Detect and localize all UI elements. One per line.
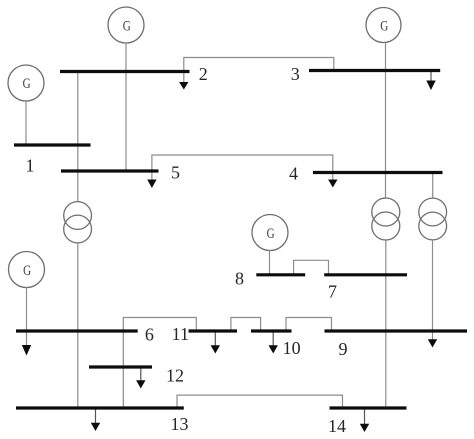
- svg-text:8: 8: [235, 269, 244, 289]
- wire transformer 5-6 bottom to bus 6 and on to bus 13: [77, 243, 79, 408]
- bus 14: [330, 406, 407, 409]
- load arrow bus 3: [430, 72, 432, 81]
- bus 9: [325, 329, 468, 332]
- bus 1: [14, 143, 91, 146]
- bus 2: [60, 70, 190, 73]
- svg-text:5: 5: [171, 162, 180, 182]
- bus 11: [189, 329, 238, 332]
- generator G8: [252, 215, 288, 251]
- svg-text:G: G: [267, 226, 275, 242]
- transformer T4-7: [372, 198, 400, 240]
- bus 13: [16, 406, 184, 409]
- svg-text:G: G: [23, 76, 31, 92]
- svg-text:14: 14: [328, 416, 346, 436]
- bus 7: [324, 273, 407, 276]
- load arrow bus 5: [147, 180, 156, 189]
- bus 12: [89, 365, 152, 368]
- load arrow bus 10: [272, 333, 274, 347]
- svg-text:7: 7: [328, 282, 337, 302]
- wire transformer 4-9 bottom toward bus 9: [432, 240, 434, 340]
- load arrow bus 13: [95, 410, 97, 424]
- wire G1 to bus 1: [25, 101, 27, 144]
- bus 10: [251, 329, 292, 332]
- bus 3: [309, 69, 440, 72]
- generator G6: [9, 252, 45, 288]
- wire G6 through bus 6 to load arrow: [26, 288, 28, 346]
- wire branch 10-9 link: [286, 318, 332, 331]
- svg-text:12: 12: [166, 366, 184, 386]
- svg-text:6: 6: [145, 325, 154, 345]
- svg-text:10: 10: [283, 338, 301, 358]
- bus 8: [256, 273, 305, 276]
- wire branch 8-7 link: [294, 260, 329, 274]
- svg-text:G: G: [380, 18, 388, 34]
- generator G1: [8, 65, 44, 101]
- bus 4: [313, 171, 443, 174]
- load arrow bus 9 (below bus, end of 4-9 line): [428, 339, 437, 347]
- wire branch 13-14 link: [177, 395, 343, 407]
- bus 5: [61, 169, 159, 172]
- wire G2 through bus 2 to bus 5 (branch 2-5): [125, 43, 127, 171]
- wire G8 to bus 8: [269, 251, 271, 275]
- load arrow bus 11: [214, 333, 216, 347]
- load arrow bus 4: [328, 180, 337, 188]
- svg-text:1: 1: [26, 156, 35, 176]
- svg-text:11: 11: [172, 324, 189, 344]
- svg-text:2: 2: [199, 64, 208, 84]
- svg-text:9: 9: [339, 339, 348, 359]
- wire transformer 4-7 bottom to bus 7 and bus 9 (branch 7-9) and bus 14 (branch 9-14): [385, 240, 387, 408]
- transformer T4-9: [419, 198, 447, 240]
- bus 6: [16, 329, 138, 332]
- load arrow bus 14: [364, 410, 366, 425]
- wire G3 to bus 3 and branch 3-4 down to transformer, bus 7, bus 9, bus 14: [385, 43, 387, 199]
- wire branch 1-2 / 1-5 / 5-6 / 6-13 long vertical: [77, 72, 79, 202]
- load arrow bus 6: [22, 345, 31, 356]
- wire branch 11-10 link: [231, 318, 261, 331]
- wire branch 2-3 link: [184, 58, 334, 83]
- svg-text:3: 3: [291, 64, 300, 84]
- transformer T5-6: [64, 202, 92, 243]
- generator G2: [108, 7, 144, 43]
- generator G3: [366, 8, 401, 43]
- load arrow bus 2: [179, 82, 188, 90]
- svg-text:G: G: [23, 263, 31, 279]
- load arrow bus 12: [140, 369, 142, 382]
- wire bus 4 to transformer 4-9: [432, 173, 434, 198]
- svg-text:G: G: [123, 18, 131, 34]
- svg-text:4: 4: [289, 164, 298, 184]
- wire branch 6-11 link with 6-12-13 vertical: [123, 318, 196, 409]
- wire branch 5-4 link: [152, 155, 333, 180]
- svg-text:13: 13: [171, 414, 189, 434]
